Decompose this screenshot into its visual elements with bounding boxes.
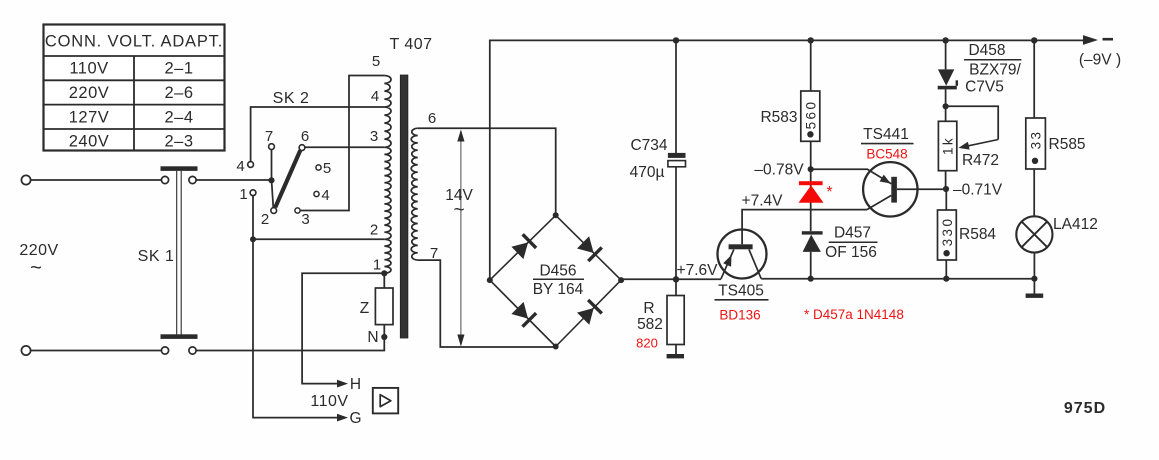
transformer primary winding: [384, 76, 391, 274]
svg-text:33: 33: [1028, 130, 1043, 150]
svg-text:1k: 1k: [941, 136, 956, 155]
contact 5 of SK2: [316, 165, 321, 170]
mains terminal bottom: [21, 346, 30, 355]
svg-text:–0.71V: –0.71V: [953, 182, 1003, 199]
svg-text:D458: D458: [968, 42, 1005, 59]
svg-text:R472: R472: [962, 152, 999, 169]
svg-text:OF 156: OF 156: [825, 244, 877, 261]
node R583 rail: [808, 37, 814, 43]
wire collector line: [761, 278, 1034, 280]
svg-text:820: 820: [636, 336, 658, 351]
wire D457 down: [810, 252, 812, 279]
pin label 4 (tap): [371, 88, 379, 105]
svg-text:R584: R584: [959, 226, 996, 243]
svg-text:3: 3: [301, 211, 309, 228]
node mains feed: [268, 150, 274, 184]
wire bridge diamond: [490, 215, 621, 346]
node tap2 junction: [250, 236, 256, 242]
wire minus rail: [490, 40, 1084, 280]
wire node to R582: [675, 279, 677, 295]
node R584 bottom: [943, 276, 949, 282]
svg-text:R: R: [643, 300, 654, 317]
node lamp bottom: [1031, 276, 1037, 282]
svg-text:~: ~: [453, 200, 464, 221]
label -0.71V: [953, 182, 1003, 199]
adapter voltage table: [44, 25, 225, 151]
wire tap1 to H: [302, 273, 382, 383]
contact 6 of SK2: [299, 145, 305, 151]
svg-text:7: 7: [265, 128, 273, 145]
arrow G: [337, 410, 362, 427]
label 14V: [445, 187, 473, 221]
svg-text:TS405: TS405: [718, 283, 764, 300]
wire wiper loop: [946, 106, 999, 139]
zener diode D458: [938, 69, 957, 89]
wire to ground right: [1033, 279, 1035, 294]
pin label 3 (tap): [370, 128, 378, 145]
label TS405: [715, 283, 769, 300]
label LA412: [1053, 216, 1098, 233]
label 110V: [310, 393, 348, 410]
svg-text:240V: 240V: [69, 133, 110, 151]
svg-text:T 407: T 407: [389, 36, 432, 53]
svg-text:4: 4: [371, 88, 379, 105]
label SK2: [273, 90, 310, 107]
value 820 (red): [636, 336, 658, 351]
wire R472 top: [945, 106, 947, 121]
pin label 7: [265, 128, 273, 145]
svg-text:2: 2: [261, 211, 269, 228]
svg-text:BZX79/: BZX79/: [969, 62, 1021, 79]
wire rail to R583: [810, 40, 812, 91]
svg-text:H: H: [350, 376, 361, 393]
label D457: [825, 225, 877, 262]
svg-text:2: 2: [370, 222, 378, 239]
label R582: [637, 300, 663, 333]
label C734: [630, 137, 668, 181]
svg-text:Z: Z: [360, 300, 369, 317]
label D456: [533, 263, 584, 299]
measure arrow 14V: [457, 130, 464, 347]
svg-text:4: 4: [236, 158, 244, 175]
wire bridge to emitter: [621, 278, 721, 280]
arrow H: [337, 376, 361, 393]
pin label 7 (sec): [430, 245, 438, 262]
wire tap7 to bridge: [418, 260, 553, 347]
node bridge bottom corner: [553, 344, 559, 350]
wire tap2 line: [253, 238, 384, 240]
svg-text:N: N: [367, 329, 378, 346]
diode bridge arm upper-right: [577, 236, 603, 262]
wire emitter TS441: [811, 168, 868, 170]
wire tap5 line: [300, 76, 384, 211]
pin label 5 (tap): [372, 53, 380, 70]
node bridge top corner: [553, 212, 559, 218]
wire mains top: [31, 179, 161, 181]
wire contact1 down / G branch: [253, 196, 338, 418]
svg-text:2–1: 2–1: [164, 60, 193, 78]
wire mains bottom: [31, 350, 161, 352]
label BC548 (red): [866, 147, 907, 162]
wire rail to D458: [945, 40, 947, 69]
svg-text:CONN. VOLT. ADAPT.: CONN. VOLT. ADAPT.: [45, 33, 223, 51]
svg-text:3: 3: [370, 128, 378, 145]
label +7.4V: [742, 193, 784, 210]
wire R585 to lamp: [1033, 169, 1035, 216]
svg-text:127V: 127V: [69, 108, 110, 126]
label R585: [1049, 136, 1086, 153]
wire R582 to ground: [675, 345, 677, 355]
capacitor C734: [668, 153, 686, 167]
resistor R584: [938, 210, 957, 260]
pin label 2: [261, 211, 269, 228]
svg-text:C7V5: C7V5: [965, 79, 1004, 96]
contact 3 of SK2: [295, 208, 300, 213]
svg-text:TS441: TS441: [863, 126, 909, 143]
label 975D: [1064, 400, 1106, 417]
svg-text:LA412: LA412: [1053, 216, 1098, 233]
node D458 rail: [942, 37, 948, 43]
label +7.6V: [677, 262, 719, 279]
svg-text:–0.78V: –0.78V: [754, 162, 804, 179]
pin label 2 (tap): [370, 222, 378, 239]
svg-text:BC548: BC548: [866, 147, 907, 162]
transformer secondary winding: [411, 128, 417, 260]
svg-text:1: 1: [239, 186, 247, 203]
node N: [381, 334, 387, 340]
transistor TS405: [718, 230, 767, 279]
arrow -9V: [1083, 35, 1113, 45]
svg-text:5: 5: [372, 53, 380, 70]
node -0.78V: [808, 166, 814, 172]
wire lamp down: [1033, 253, 1035, 279]
lamp LA412: [1016, 216, 1052, 252]
svg-text:~: ~: [30, 257, 42, 279]
wire rail to R585: [1033, 40, 1035, 118]
label R584: [959, 226, 996, 243]
wire base TS405 riser: [742, 210, 867, 245]
label SK1: [138, 248, 175, 265]
pin label 4: [321, 187, 329, 204]
label TS441: [861, 126, 914, 144]
svg-text:+7.6V: +7.6V: [677, 262, 719, 279]
fuse Z: [375, 288, 393, 325]
svg-text:470µ: 470µ: [630, 164, 665, 181]
pin label 1: [239, 186, 247, 203]
svg-text:D457: D457: [834, 225, 871, 242]
node bridge left corner: [487, 277, 493, 283]
contact 2 of SK2: [271, 208, 277, 214]
svg-text:SK 2: SK 2: [273, 90, 310, 107]
red asterisk: [826, 184, 832, 201]
wire rail to C734: [675, 40, 677, 153]
label -0.78V: [754, 162, 804, 179]
svg-text:582: 582: [637, 316, 663, 333]
switch SK1 (double pole): [161, 166, 198, 354]
node C734 rail: [673, 37, 679, 43]
diode D457: [802, 231, 823, 252]
label R583: [760, 109, 797, 126]
transistor TS441: [863, 162, 917, 216]
svg-text:330: 330: [940, 217, 955, 247]
wire R583 down: [810, 141, 812, 169]
svg-text:G: G: [349, 410, 361, 427]
label Z: [360, 300, 369, 317]
svg-text:(–9V ): (–9V ): [1079, 52, 1121, 69]
label N: [367, 329, 378, 346]
wire D458 down: [945, 89, 947, 106]
wire base TS441: [897, 188, 946, 190]
pin label 5: [323, 160, 331, 177]
wiper SK2 (2-6): [275, 150, 300, 207]
transformer core: [400, 75, 408, 338]
wire R584 down: [945, 260, 947, 279]
label (-9V): [1079, 52, 1121, 69]
contact 4a of SK2: [314, 191, 319, 196]
wire fuse to N: [383, 325, 385, 337]
pin label 3: [301, 211, 309, 228]
diode bridge arm lower-right: [577, 299, 603, 325]
svg-text:110V: 110V: [310, 393, 348, 410]
pin label 6: [301, 128, 309, 145]
pin label 4: [236, 158, 244, 175]
contact 1 of SK2: [250, 190, 256, 196]
svg-text:2–6: 2–6: [164, 84, 193, 102]
resistor R472 1k: [938, 121, 956, 170]
node -0.71V: [943, 186, 949, 192]
node tap1: [381, 270, 387, 276]
svg-text:R585: R585: [1049, 136, 1086, 153]
wire SK1 bottom to N: [196, 339, 384, 351]
svg-text:4: 4: [321, 187, 329, 204]
resistor R582: [667, 296, 684, 345]
node bridge right corner: [618, 277, 624, 283]
play symbol box: [373, 388, 398, 414]
wire tap3 line: [305, 146, 385, 148]
node +7.6V: [673, 276, 679, 282]
svg-text:SK 1: SK 1: [138, 248, 175, 265]
svg-text:R583: R583: [760, 109, 797, 126]
svg-text:5: 5: [323, 160, 331, 177]
wire tap4 line: [251, 107, 385, 162]
wire node to D457: [810, 169, 812, 231]
pin label 1 (tap): [373, 257, 381, 274]
svg-text:+7.4V: +7.4V: [742, 193, 784, 210]
wire SK1 top to SK2: [196, 179, 269, 181]
svg-text:BY 164: BY 164: [533, 281, 584, 298]
svg-text:6: 6: [428, 110, 436, 127]
node R585 rail: [1031, 37, 1037, 43]
label R472: [962, 152, 999, 169]
diode bridge arm lower-left: [511, 302, 537, 328]
red note D457a: [804, 307, 904, 322]
svg-text:6: 6: [301, 128, 309, 145]
wire R472 down: [945, 171, 947, 190]
node D458 bottom: [943, 103, 949, 109]
wire feed to contact 2: [272, 183, 274, 208]
wire node to R584: [945, 189, 947, 210]
ground (right): [1026, 294, 1044, 298]
red annotation diode: [799, 181, 824, 203]
resistor R585: [1026, 118, 1046, 169]
pin label 6 (sec): [428, 110, 436, 127]
svg-text:560: 560: [803, 100, 818, 130]
diode bridge arm upper-left: [511, 233, 537, 259]
node D457 bottom: [808, 276, 814, 282]
wire tap1 to fuse: [383, 273, 385, 288]
wiper arrow R472: [959, 140, 999, 150]
label BD136 (red): [719, 308, 760, 323]
label T407: [389, 36, 432, 53]
svg-text:*: *: [826, 184, 832, 201]
svg-text:110V: 110V: [69, 60, 108, 78]
resistor R583: [801, 91, 820, 141]
contact 7 of SK2: [269, 144, 275, 150]
svg-text:* D457a 1N4148: * D457a 1N4148: [804, 307, 904, 322]
svg-text:2–3: 2–3: [164, 133, 193, 151]
svg-text:220V: 220V: [69, 84, 110, 102]
contact 4 of SK2: [248, 162, 254, 168]
svg-text:975D: 975D: [1064, 400, 1106, 417]
svg-text:2–4: 2–4: [164, 108, 193, 126]
label D458: [964, 42, 1022, 96]
mains terminal top: [21, 175, 30, 184]
ground (R582): [667, 354, 684, 358]
svg-text:C734: C734: [630, 137, 667, 154]
wire C734 down: [675, 167, 677, 279]
label 220V: [19, 242, 58, 279]
svg-text:BD136: BD136: [719, 308, 760, 323]
svg-text:1: 1: [373, 257, 381, 274]
wire tap6 to bridge: [418, 128, 556, 213]
svg-text:D456: D456: [539, 263, 576, 280]
